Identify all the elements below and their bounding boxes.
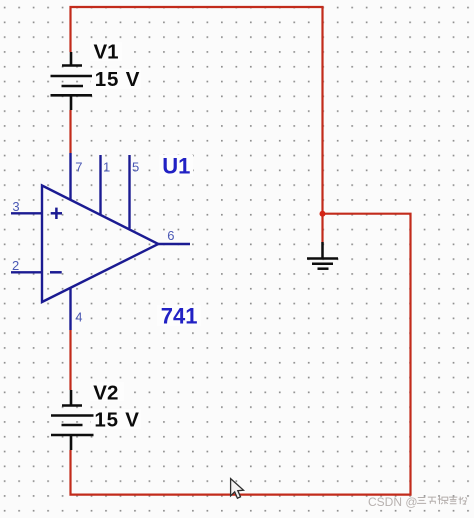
svg-text:V1: V1 — [94, 40, 119, 63]
svg-text:15 V: 15 V — [94, 408, 139, 431]
svg-text:5: 5 — [132, 160, 139, 175]
svg-text:1: 1 — [103, 160, 110, 175]
svg-text:6: 6 — [167, 228, 174, 243]
svg-text:CSDN @: CSDN @ — [368, 495, 418, 509]
svg-text:U1: U1 — [162, 154, 190, 179]
svg-text:2: 2 — [12, 258, 19, 273]
svg-text:V2: V2 — [93, 381, 118, 404]
svg-text:15 V: 15 V — [95, 68, 140, 91]
svg-text:741: 741 — [161, 304, 198, 329]
svg-text:7: 7 — [75, 160, 82, 175]
svg-text:4: 4 — [75, 309, 82, 324]
svg-text:3: 3 — [12, 199, 19, 214]
